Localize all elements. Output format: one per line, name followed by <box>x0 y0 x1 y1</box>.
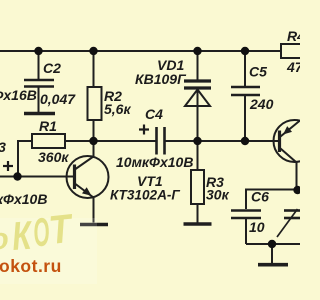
ground under C6 node <box>258 263 288 267</box>
node top R2 <box>89 47 97 55</box>
varicap VD1 <box>184 51 211 141</box>
wire mid bus C4 to VT2 base <box>166 140 279 142</box>
transistor VT2 <box>274 120 316 189</box>
wire bottom (C6 to edge) <box>246 243 300 245</box>
VT2 emitter arrow <box>283 126 292 134</box>
ground under VT1 emitter <box>80 223 108 227</box>
node input R1 <box>13 172 21 180</box>
capacitor C2 <box>24 51 54 112</box>
resistor R3 <box>191 141 204 223</box>
wire top supply bus <box>0 50 281 52</box>
transistor VT1 <box>67 141 109 223</box>
svg-text:R4: R4 <box>287 28 300 44</box>
watermark KOT <box>0 207 77 259</box>
node VT2 collector <box>293 186 301 194</box>
node mid R2 <box>89 137 97 145</box>
node mid VD1 <box>193 137 201 145</box>
watermark backdrop <box>0 218 97 284</box>
svg-text:10мкФх10В: 10мкФх10В <box>116 154 193 170</box>
capacitor C4 <box>157 127 165 155</box>
resistor R2 <box>88 51 102 141</box>
svg-text:10: 10 <box>249 219 265 235</box>
svg-text:КТ3102А-Г: КТ3102А-Г <box>110 188 180 203</box>
svg-text:C2: C2 <box>43 60 61 76</box>
wire mid bus node to C4 <box>94 140 156 142</box>
svg-text:okot.ru: okot.ru <box>0 256 62 276</box>
node top C5 <box>241 47 249 55</box>
svg-text:360к: 360к <box>38 149 69 165</box>
svg-text:30к: 30к <box>206 187 230 203</box>
ground under C2 <box>24 112 55 116</box>
resistor R4 <box>281 44 302 58</box>
svg-text:мкФх16В: мкФх16В <box>0 87 37 103</box>
capacitor C6 <box>231 190 298 245</box>
svg-text:240: 240 <box>249 96 274 112</box>
wire ground stem <box>271 244 273 263</box>
ground under R3 <box>184 222 212 226</box>
VT1 emitter arrow <box>82 187 92 196</box>
svg-text:C4: C4 <box>145 106 163 122</box>
wire input base line <box>0 176 74 178</box>
resistor R1 <box>32 134 65 148</box>
wire R1 left lead <box>18 141 32 177</box>
svg-text:КВ109Г: КВ109Г <box>135 71 187 87</box>
node top C2 <box>34 47 42 55</box>
svg-text:C6: C6 <box>251 189 269 205</box>
svg-text:C5: C5 <box>249 64 267 80</box>
svg-text:С3: С3 <box>0 139 6 155</box>
wire mid bus left (R1 to node) <box>65 140 94 142</box>
svg-text:5,6к: 5,6к <box>104 101 131 117</box>
svg-text:47к: 47к <box>286 59 300 75</box>
node mid C5 <box>241 137 249 145</box>
svg-text:0,047: 0,047 <box>40 91 76 107</box>
C4 polarity plus <box>139 125 149 135</box>
capacitor C5 <box>231 51 260 141</box>
svg-text:10мкФх10В: 10мкФх10В <box>0 191 47 207</box>
node top VD1 <box>193 47 201 55</box>
svg-text:R1: R1 <box>39 118 57 134</box>
C3 polarity plus <box>3 161 13 171</box>
trimmer capacitor (cut at right edge) <box>277 209 300 237</box>
node bottom ground <box>268 240 276 248</box>
